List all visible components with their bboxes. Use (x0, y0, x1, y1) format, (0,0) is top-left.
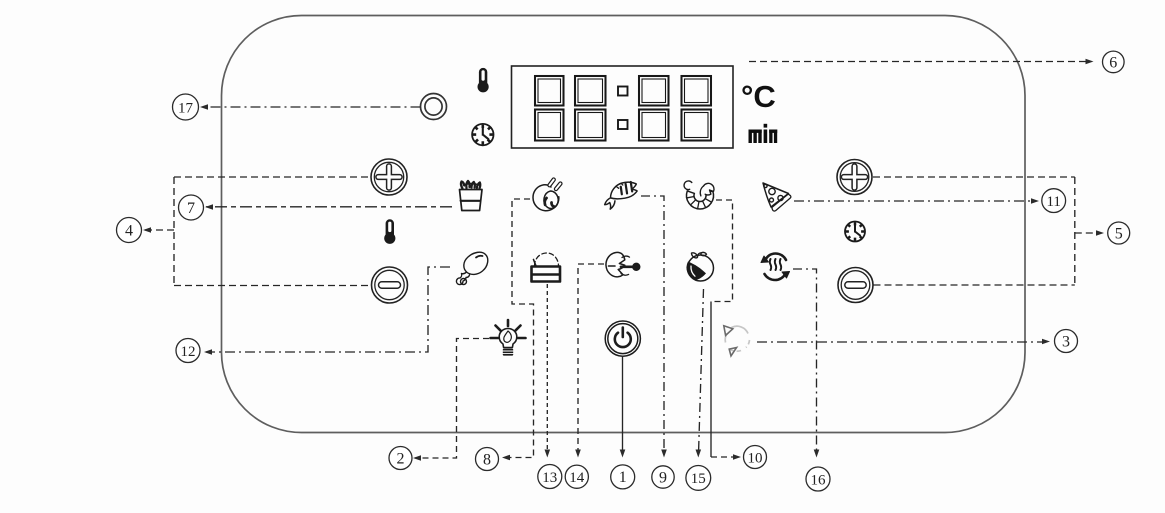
svg-text:°C: °C (741, 79, 776, 114)
svg-text:11: 11 (1046, 194, 1060, 210)
colon (618, 87, 628, 130)
leader line 11 (794, 200, 1035, 202)
leader line 4 bracket (145, 177, 372, 286)
callout 16 (806, 467, 830, 491)
svg-text:3: 3 (1062, 333, 1070, 350)
ring button 17 (421, 94, 447, 120)
callout 3 (1055, 330, 1078, 353)
leader line 15 (699, 289, 704, 454)
callout 12 (176, 339, 200, 363)
display frame (512, 66, 734, 148)
svg-text:12: 12 (181, 344, 196, 360)
svg-text:10: 10 (748, 450, 763, 466)
clock right (845, 222, 865, 242)
chicken leg icon (456, 252, 487, 284)
minus button right (838, 268, 873, 303)
min label (749, 124, 778, 143)
callout 14 (565, 465, 588, 488)
leader line 17 (202, 106, 421, 108)
leader line 3 (757, 341, 1046, 343)
callout 5 (1108, 222, 1130, 244)
rotate icon (725, 326, 749, 351)
callout 2 (389, 447, 412, 470)
thermometer left (384, 219, 395, 244)
leader line 5 bracket (873, 177, 1101, 285)
light bulb icon (491, 320, 526, 356)
leader line 10 (711, 200, 733, 302)
leader line 16 (793, 269, 817, 454)
leader line 2 (415, 339, 489, 459)
svg-text:6: 6 (1109, 54, 1117, 71)
meat icon (533, 180, 560, 211)
leader line 14 (578, 264, 604, 454)
svg-text:13: 13 (542, 470, 557, 486)
plus button right (837, 160, 872, 195)
leader line 8 (503, 199, 534, 458)
leader line 13 (546, 284, 548, 454)
pizza icon (763, 183, 791, 211)
skewer icon (606, 252, 640, 276)
digit 2 (575, 76, 606, 141)
svg-text:14: 14 (569, 470, 585, 486)
callout 1 (611, 465, 635, 489)
digit 4 (682, 76, 712, 141)
tomato icon (686, 252, 713, 281)
svg-text:2: 2 (397, 450, 405, 467)
clock top (472, 124, 493, 145)
callout 8 (476, 448, 499, 471)
callout 10 (744, 446, 767, 469)
rotate arrowheads (724, 326, 737, 356)
callout 17 (173, 94, 199, 120)
leader line 1 (622, 357, 624, 454)
svg-text:1: 1 (619, 469, 627, 486)
leader line 12 (206, 267, 450, 352)
shrimp icon (684, 181, 714, 209)
fries icon (460, 181, 482, 211)
minus button left (372, 267, 408, 303)
svg-text:4: 4 (125, 223, 133, 240)
fish icon (600, 178, 642, 210)
svg-text:7: 7 (187, 200, 195, 217)
callout 7 (179, 195, 204, 220)
svg-text:16: 16 (811, 472, 827, 488)
callout 11 (1042, 189, 1066, 213)
panel outline (222, 16, 1026, 433)
callout 13 (538, 465, 562, 489)
thermometer top (478, 68, 489, 93)
callout 9 (652, 466, 674, 488)
svg-text:5: 5 (1115, 225, 1123, 242)
callout 4 (117, 218, 142, 243)
reheat icon (761, 254, 790, 281)
leader line 7 (206, 206, 452, 208)
digit 3 (639, 76, 669, 141)
svg-text:15: 15 (691, 471, 706, 487)
callout 6 (1103, 51, 1125, 73)
leader line 6 (749, 61, 1089, 63)
digit 1 (535, 76, 564, 141)
leader line 9 (641, 196, 664, 454)
plus button left (371, 159, 407, 195)
power button (605, 321, 640, 356)
cake icon (532, 253, 561, 282)
svg-text:9: 9 (659, 469, 667, 486)
callout 15 (686, 466, 711, 491)
svg-text:8: 8 (483, 451, 491, 468)
svg-text:17: 17 (178, 100, 194, 116)
